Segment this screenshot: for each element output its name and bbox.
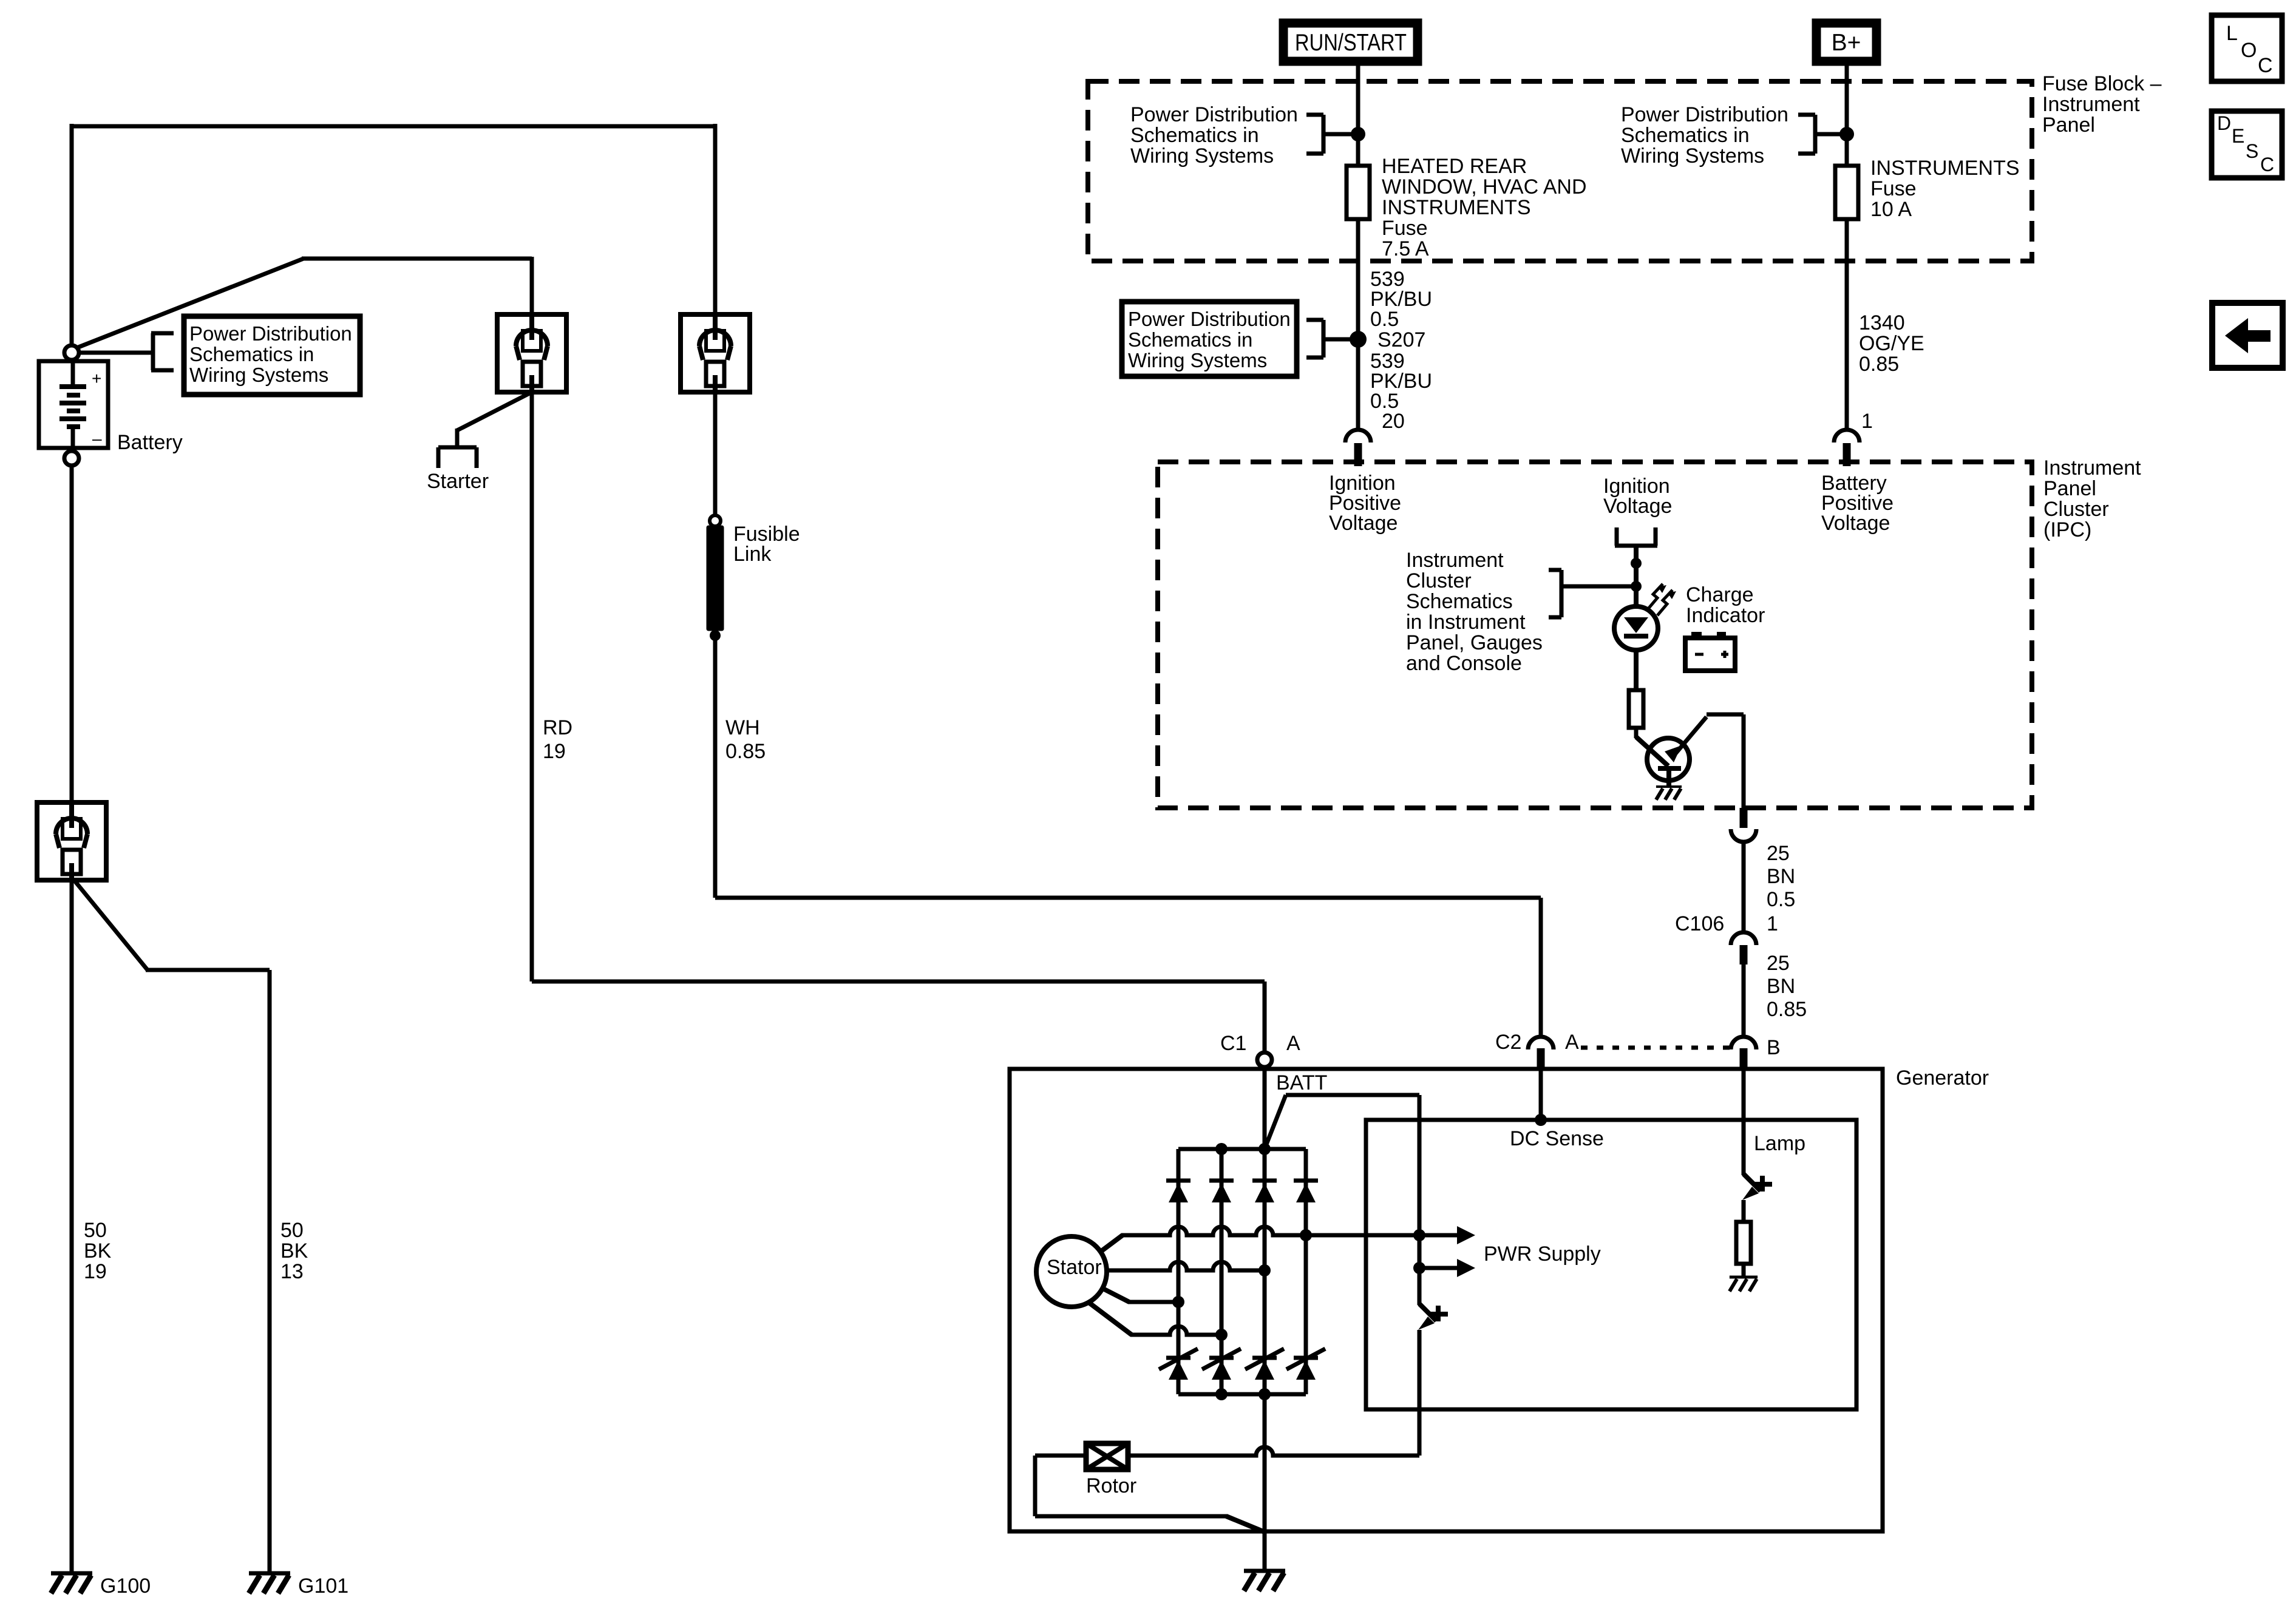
wire: lamp transistor emitter to resistor [1742,1200,1746,1222]
transistor: regulator field driver [1419,1304,1436,1321]
svg-text:20: 20 [1382,410,1405,433]
icon: battery pictograph [1691,632,1702,639]
svg-text:Cluster: Cluster [1406,569,1472,592]
svg-text:WH: WH [725,716,760,739]
wire: Lamp feed from B [1742,1069,1746,1175]
svg-text:19: 19 [84,1260,107,1283]
svg-text:1: 1 [1767,912,1778,935]
svg-text:Battery: Battery [117,431,183,454]
wire: resistor to ground [1742,1264,1746,1277]
svg-text:7.5 A: 7.5 A [1382,237,1429,260]
wire: BATT branch to regulator [1265,1095,1286,1149]
svg-text:Voltage: Voltage [1821,512,1890,535]
diode: lower avalanche column 3 [1245,1349,1284,1369]
wire: diagonal stub to starter [457,392,532,430]
bracket: reference to Power Distribution (battery) [78,351,153,355]
node: phase 2 at column 3 [1258,1264,1271,1276]
wire: connector to fusible link [713,391,718,517]
svg-text:Wiring Systems: Wiring Systems [189,364,328,386]
generator outer box [1010,1069,1883,1531]
node: junction at B+ feed [1839,127,1854,141]
svg-text:S207: S207 [1377,328,1425,351]
svg-text:1340: 1340 [1859,311,1905,334]
svg-text:Wiring Systems: Wiring Systems [1621,144,1764,168]
stator phase lead 1 [1101,1235,1123,1252]
wire: RUN/START down to fuse [1356,66,1360,166]
svg-text:Power Distribution: Power Distribution [1621,103,1788,126]
wire: transistor collector to IPC output [1674,717,1707,756]
svg-text:L: L [2226,22,2238,45]
wire: rotor feed line with hop over main vertical [1128,1447,1419,1456]
wire: fusible link feed vertical into connector [713,124,718,316]
svg-text:INSTRUMENTS: INSTRUMENTS [1870,157,2020,180]
battery G (main vehicle battery) [39,361,108,448]
diode: lower avalanche column 2 [1202,1349,1241,1369]
diode: upper column 4 [1294,1179,1318,1183]
svg-text:0.5: 0.5 [1370,308,1399,331]
dashed box: Instrument Panel Cluster (IPC) [1158,462,2032,808]
node: phase 3 at column 1 [1172,1296,1184,1308]
button: LOC [2212,15,2282,81]
bracket: S207 reference [1322,320,1326,358]
svg-text:50: 50 [280,1219,304,1242]
svg-text:RD: RD [543,716,572,739]
wire: generator case to ground [1263,1531,1267,1571]
node: fusible link top terminal [710,515,721,526]
stator winding circle [1036,1236,1107,1307]
ground: IPC transistor emitter [1656,785,1682,788]
wire: left vertical from top feed down to battery positive [70,124,74,347]
svg-text:(IPC): (IPC) [2043,518,2091,541]
svg-text:Power Distribution: Power Distribution [1130,103,1298,126]
svg-text:Power Distribution: Power Distribution [189,322,352,345]
svg-text:Fuse: Fuse [1870,177,1917,200]
wire 539 PK/BU 0.5 upper [1356,219,1360,429]
net label box: B+ [1816,23,1877,61]
transistor: IPC driver [1636,737,1668,766]
wire: starter feed horizontal [302,257,532,261]
wire: starter feed vertical into connector [530,257,534,316]
svg-text:Starter: Starter [427,470,489,493]
svg-text:Cluster: Cluster [2043,498,2109,521]
connector: ring terminal at fusible link [681,314,750,392]
wire: rotor return to generator case [1035,1454,1086,1458]
connector: IPC pin 1 female cup and pin [1834,430,1860,442]
svg-text:–: – [92,429,102,448]
connector: IPC output pin and cup [1740,808,1748,828]
svg-text:Schematics in: Schematics in [1130,124,1259,147]
rectifier column 4 [1304,1149,1308,1394]
svg-text:BATT: BATT [1276,1071,1327,1094]
svg-text:Fuse: Fuse [1382,217,1428,240]
svg-text:Schematics: Schematics [1406,590,1513,613]
svg-text:DC Sense: DC Sense [1510,1127,1604,1150]
diode: lower avalanche column 4 [1286,1349,1325,1369]
connector C2 pin A cup and pin [1528,1037,1554,1049]
arrow: PWR Supply upper [1419,1233,1458,1238]
svg-text:Link: Link [733,543,772,566]
voltage regulator inner box [1366,1120,1856,1409]
svg-text:1: 1 [1861,410,1873,433]
svg-text:INSTRUMENTS: INSTRUMENTS [1382,196,1531,219]
svg-text:BN: BN [1767,975,1795,998]
svg-text:Power Distribution: Power Distribution [1128,308,1291,330]
button: DESC [2212,111,2282,178]
svg-text:C106: C106 [1675,912,1724,935]
node: phase 1 at column 4 [1300,1229,1312,1241]
svg-text:BK: BK [280,1239,308,1263]
ground: lamp resistor [1730,1276,1758,1279]
svg-text:RUN/START: RUN/START [1295,30,1407,56]
svg-text:A: A [1565,1031,1579,1054]
node: ignition voltage tap [1631,558,1642,569]
node: battery positive terminal [64,345,79,360]
svg-text:Panel: Panel [2043,477,2096,500]
stator phase lead 2 [1107,1262,1265,1270]
fusible link element [707,526,724,631]
wire: diagonal from battery positive to starter feed [75,259,304,348]
svg-text:Fuse Block –: Fuse Block – [2042,72,2162,95]
node: S-junction at run/start feed [1351,127,1365,141]
wire: battery negative down to G100 connector [70,465,74,804]
dashed box: Fuse Block - Instrument Panel [1088,81,2032,261]
wire: C1 BATT main vertical through bridge to generator bottom [1263,1069,1267,1531]
svg-text:13: 13 [280,1260,304,1283]
arrow: PWR Supply lower [1413,1262,1425,1274]
svg-text:0.5: 0.5 [1767,888,1795,911]
connector B cup and pin at generator [1731,1037,1756,1049]
svg-text:C: C [2258,54,2273,77]
resistor: charge indicator dropping resistor [1629,690,1643,728]
svg-text:PWR Supply: PWR Supply [1484,1242,1601,1266]
svg-text:Wiring Systems: Wiring Systems [1130,144,1274,168]
symbol: lightning arrows (illumination) [1648,584,1663,609]
symbol: ignition voltage source bracket [1615,527,1619,546]
rectifier top bus [1178,1147,1306,1151]
node: phase 4 at column 2 [1215,1329,1228,1341]
svg-text:0.85: 0.85 [1859,353,1899,376]
button: back arrow [2212,303,2283,368]
svg-text:C2: C2 [1495,1031,1521,1054]
svg-text:Instrument: Instrument [2042,93,2140,116]
connector: ring terminal at starter [497,314,566,392]
net label box: RUN/START [1283,23,1418,61]
node: bottom bus at column 2 [1215,1388,1228,1400]
svg-text:50: 50 [84,1219,107,1242]
svg-text:0.85: 0.85 [1767,998,1807,1021]
indicator LED: Charge Indicator lamp [1614,606,1658,650]
node: fusible link bottom junction [710,630,721,641]
connector: ring terminal to ground harness [37,802,106,880]
connector C1 pin A ring [1257,1053,1272,1067]
wire: DC Sense from C2 to regulator [1539,1069,1543,1120]
svg-text:BK: BK [84,1239,112,1263]
svg-text:Instrument: Instrument [1406,549,1504,572]
svg-text:A: A [1286,1032,1300,1055]
svg-text:G100: G100 [100,1575,151,1598]
svg-text:Generator: Generator [1896,1066,1989,1090]
wire RD 19: connector down, right, to generator C1 [530,391,534,981]
ground G101 [249,1571,290,1576]
svg-text:and Console: and Console [1406,652,1522,675]
wire 50 BK 13: diagonal, right, down to G101 [74,880,148,970]
svg-text:Indicator: Indicator [1686,604,1765,627]
diode: upper column 1 [1166,1179,1190,1183]
stator phase lead 4 [1090,1303,1132,1335]
svg-text:C: C [2260,154,2274,175]
wire: ignition voltage to charge indicator [1634,546,1639,608]
ground: generator case G [1244,1569,1285,1573]
stator phase lead 3 [1103,1289,1129,1302]
wire 25 BN 0.5 [1742,841,1746,931]
node: battery negative terminal [64,451,79,466]
diode: upper column 2 [1209,1179,1234,1183]
wire WH 0.85: fusible link down, right, to generator C2 [713,639,718,898]
svg-text:0.85: 0.85 [725,740,766,763]
svg-text:Schematics in: Schematics in [189,343,314,365]
node: bottom bus at column 3 [1258,1388,1271,1400]
symbol: Starter off-page bracket [438,446,477,450]
resistor: lamp dropping resistor [1736,1222,1751,1264]
reference box: Power Distribution Schematics in Wiring Systems (S207) [1122,302,1297,376]
rectifier column 1 [1177,1149,1181,1394]
transistor: lamp driver [1744,1174,1761,1191]
svg-text:10 A: 10 A [1870,198,1912,221]
ground G100 [51,1571,92,1576]
svg-text:B: B [1767,1036,1781,1059]
wire: LED to resistor [1634,650,1639,690]
svg-text:25: 25 [1767,842,1790,865]
wire 1340 OG/YE 0.85 [1845,219,1849,429]
wire 25 BN 0.85 [1742,964,1746,1036]
svg-text:Schematics in: Schematics in [1621,124,1750,147]
wire: battery B+ top feed horizontal [72,124,715,129]
svg-text:D: D [2217,112,2231,134]
svg-text:Schematics in: Schematics in [1128,328,1252,351]
svg-text:Charge: Charge [1686,583,1754,606]
svg-text:Panel, Gauges: Panel, Gauges [1406,631,1543,654]
svg-text:19: 19 [543,740,566,763]
dashed jumper between C2-A and B [1581,1046,1730,1050]
svg-text:O: O [2241,39,2257,62]
svg-text:Wiring Systems: Wiring Systems [1128,349,1267,371]
svg-text:G101: G101 [298,1575,348,1598]
svg-text:B+: B+ [1832,30,1861,56]
node: top bus at column 2 [1215,1143,1228,1155]
rotor winding box [1086,1443,1128,1470]
rectifier column 2 [1220,1149,1224,1394]
rectifier bottom bus [1178,1392,1306,1397]
fuse: INSTRUMENTS 10 A [1835,166,1858,219]
svg-text:in Instrument: in Instrument [1406,611,1526,634]
node: instrument cluster schematics tap [1631,581,1642,592]
connector: IPC pin 20 female cup and pin [1345,430,1371,442]
svg-text:WINDOW, HVAC AND: WINDOW, HVAC AND [1382,175,1587,198]
svg-text:Lamp: Lamp [1754,1132,1805,1155]
svg-text:Stator: Stator [1047,1256,1102,1279]
svg-text:Voltage: Voltage [1329,512,1398,535]
node: BATT junction at rectifier bus [1258,1143,1271,1155]
fuse: HEATED REAR WINDOW, HVAC AND INSTRUMENTS 7.5 A [1347,166,1370,219]
splice S207 [1350,331,1367,348]
wire: resistor to transistor base [1634,728,1639,738]
svg-text:C1: C1 [1220,1032,1246,1055]
svg-text:S: S [2246,140,2258,162]
svg-text:25: 25 [1767,952,1790,975]
svg-text:Panel: Panel [2042,114,2095,137]
diode: lower avalanche column 1 [1159,1349,1198,1369]
svg-text:Voltage: Voltage [1603,495,1672,518]
reference box: Power Distribution Schematics in Wiring Systems (battery) [184,316,360,395]
svg-text:+: + [92,369,101,388]
wire: B+ down to fuse [1845,66,1849,166]
svg-text:BN: BN [1767,865,1795,888]
node: phase 1 at regulator [1413,1229,1425,1241]
svg-text:Instrument: Instrument [2043,456,2141,480]
wire: regulator emitter down to rotor line [1418,1330,1422,1456]
diode: upper column 3 [1252,1179,1277,1183]
svg-text:E: E [2232,125,2244,147]
node: DC Sense junction [1535,1114,1547,1126]
svg-text:OG/YE: OG/YE [1859,332,1924,355]
svg-text:HEATED REAR: HEATED REAR [1382,155,1527,178]
wire 50 BK 19: down to G100 [70,880,74,1573]
svg-text:Rotor: Rotor [1086,1474,1136,1497]
